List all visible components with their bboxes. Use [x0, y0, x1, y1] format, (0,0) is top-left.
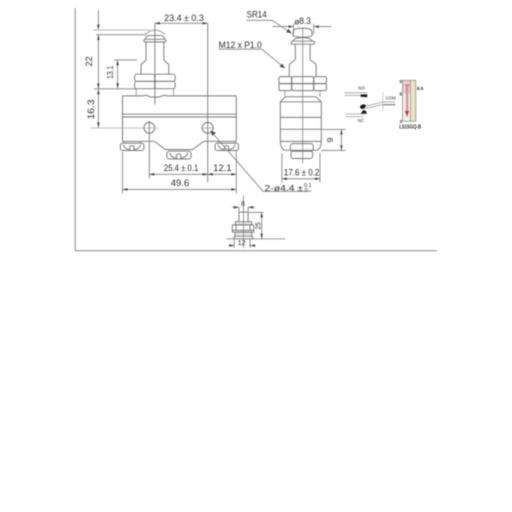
- side body band line: [280, 116, 321, 118]
- NC terminal lines: [346, 113, 368, 115]
- svg-text:8.5: 8.5: [417, 86, 424, 91]
- side ring flange: [291, 41, 314, 44]
- detail hex lower strip: [232, 230, 254, 232]
- hex nut side row2: [279, 84, 292, 91]
- svg-text:25: 25: [256, 222, 263, 229]
- moving contact lower / NC contact: [361, 110, 367, 114]
- plunger free-position arc: [145, 30, 165, 34]
- hex nut front row2: [135, 81, 155, 88]
- svg-text:13.1: 13.1: [105, 66, 115, 79]
- dim 17.6 right extension: [319, 153, 321, 183]
- front plunger vertical centreline: [154, 23, 156, 104]
- side plunger dome: [293, 28, 312, 36]
- schematic guide vertical line: [382, 92, 384, 111]
- hex nut side row1: [279, 77, 292, 84]
- body left extension line: [122, 152, 124, 194]
- free position extension line: [93, 29, 150, 31]
- gauge frame: [403, 80, 416, 121]
- body top cap line with centre dip: [123, 95, 237, 97]
- side centreline: [302, 28, 304, 163]
- detail nut band outline: [235, 222, 251, 225]
- right mounting hole: [202, 122, 213, 133]
- detail flange skirt: [234, 236, 254, 239]
- left hole extension line down: [148, 121, 150, 179]
- svg-text:NO: NO: [358, 86, 365, 91]
- body band line 2: [123, 116, 237, 118]
- detail nut band shaded: [235, 222, 251, 225]
- side dome skirt: [293, 38, 313, 42]
- svg-text:8.3: 8.3: [299, 16, 311, 26]
- svg-text:SR14: SR14: [247, 10, 267, 20]
- dim 13.1 extension line: [114, 59, 137, 61]
- svg-text:2-ø4.4 ±: 2-ø4.4 ±: [265, 183, 304, 193]
- dia 8.3 left extension line: [293, 24, 295, 35]
- gauge red arrow crossbar: [405, 84, 410, 86]
- body outline: [123, 96, 237, 141]
- gauge red arrow shaft: [406, 85, 408, 111]
- svg-text:23.4 ± 0.3: 23.4 ± 0.3: [164, 13, 204, 23]
- SR14 leader: [246, 20, 291, 33]
- plunger flare: [141, 60, 169, 64]
- detail plunger shaft: [239, 212, 248, 222]
- NO fixed contact: [361, 94, 368, 97]
- side body bottom line: [280, 140, 321, 142]
- dim 25.4 line: [149, 173, 207, 175]
- detail centreline: [243, 196, 245, 249]
- svg-text:12: 12: [238, 238, 246, 247]
- left terminal screw: [120, 143, 143, 150]
- detail dim 12 arrows: [229, 245, 235, 247]
- COM moving arm: [362, 102, 383, 107]
- svg-text:9: 9: [325, 137, 335, 142]
- detail dim 8 extension lines: [239, 207, 248, 211]
- dim 9 line: [340, 129, 342, 150]
- dim 13.1 line: [117, 60, 119, 88]
- dim 22 line: [97, 35, 99, 89]
- detail dim 8 arrows: [232, 206, 239, 208]
- hole diameter leader line: [211, 131, 312, 191]
- detail dim 25 line: [261, 212, 263, 238]
- detail washer outline: [235, 232, 252, 236]
- svg-text:0: 0: [400, 79, 403, 85]
- right hole horizontal centreline: [201, 127, 215, 129]
- detail hex band: [232, 225, 254, 231]
- dia 8.3 left arrow: [272, 26, 292, 28]
- moving contact upper: [359, 104, 366, 110]
- gauge left cell lower zone: [403, 94, 410, 121]
- dim 23.4 line: [155, 22, 208, 24]
- dim 16.3 line: [97, 89, 99, 127]
- border frame bottom horizontal line: [75, 250, 437, 252]
- side foot: [280, 141, 321, 150]
- svg-text:16.3: 16.3: [86, 99, 96, 119]
- side terminal cover line: [280, 128, 321, 130]
- svg-text:COM: COM: [385, 96, 396, 101]
- NO terminal lines: [345, 92, 368, 94]
- COM terminal lines: [383, 101, 395, 103]
- pretravel down arrow: [97, 10, 99, 29]
- foot connector lines: [124, 141, 236, 143]
- plunger collar: [141, 65, 169, 75]
- detail shaft top: [239, 211, 248, 213]
- svg-text:LS15GQ-B: LS15GQ-B: [399, 124, 421, 130]
- detail dim 12 extension lines: [234, 240, 250, 248]
- dim 9 bottom extension: [321, 149, 346, 151]
- plunger shaft: [146, 42, 164, 60]
- bushing under nut: [136, 89, 173, 96]
- side collar: [289, 64, 316, 76]
- operating position extension line: [96, 34, 146, 36]
- side body top chamfer: [280, 97, 321, 102]
- dim 49.6 line: [123, 188, 237, 190]
- svg-text:12.1: 12.1: [213, 163, 232, 173]
- dia 8.3 right extension line: [313, 24, 315, 35]
- svg-text:0: 0: [305, 188, 308, 194]
- detail dim 25 extension: [249, 211, 264, 213]
- side body chamfer base line: [280, 101, 321, 103]
- side screw row1: [290, 144, 313, 152]
- dim 17.6 left extension: [281, 153, 283, 183]
- side bushing: [285, 91, 320, 97]
- hex nut front row1: [135, 74, 155, 81]
- gauge red arrow head: [405, 111, 410, 118]
- svg-text:49.6: 49.6: [171, 178, 190, 188]
- dim 12.1 line: [208, 173, 237, 175]
- svg-text:17.6 ± 0.2: 17.6 ± 0.2: [284, 167, 319, 177]
- side screw row2: [291, 151, 313, 158]
- left hole horizontal centreline: [91, 127, 159, 129]
- detail washer shaded: [235, 232, 252, 236]
- dim 17.6 line: [282, 178, 320, 180]
- side plunger shaft: [295, 44, 310, 60]
- body band line 1: [123, 113, 237, 115]
- nut-bottom extension line: [94, 88, 136, 90]
- right terminal screw: [215, 143, 239, 150]
- side plunger flare: [289, 60, 316, 65]
- svg-text:M12 x P1.0: M12 x P1.0: [219, 40, 262, 50]
- side body outline: [280, 102, 321, 142]
- detail hex facets: [236, 225, 250, 231]
- dim 9 top extension: [322, 128, 346, 130]
- gauge right cell: [411, 81, 416, 121]
- left mounting hole: [144, 122, 155, 133]
- svg-text:25.4 ± 0.1: 25.4 ± 0.1: [164, 163, 198, 173]
- svg-text:NC: NC: [358, 118, 364, 123]
- svg-text:5: 5: [400, 91, 403, 97]
- dia 8.3 right arrow: [315, 26, 331, 28]
- right hole long extension line: [207, 23, 209, 182]
- plunger dome (operating): [146, 35, 165, 39]
- svg-text:8: 8: [241, 201, 245, 208]
- detail panel surface line: [226, 238, 285, 240]
- border frame left vertical line: [74, 8, 76, 251]
- gauge left cell pink zone: [403, 81, 410, 94]
- body right extension line: [235, 151, 237, 193]
- M12 leader: [219, 49, 285, 68]
- plunger ring flange: [144, 39, 166, 42]
- body bottom profile with centre notch: [123, 141, 237, 149]
- svg-text:22: 22: [84, 56, 94, 66]
- middle terminal screw: [167, 151, 191, 159]
